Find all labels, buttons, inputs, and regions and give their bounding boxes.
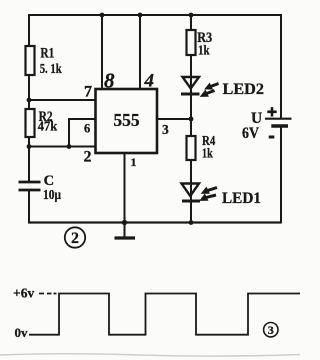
svg-text:6V: 6V bbox=[242, 125, 260, 142]
svg-text:2: 2 bbox=[71, 230, 79, 247]
svg-text:LED1: LED1 bbox=[222, 190, 261, 207]
svg-text:2: 2 bbox=[84, 148, 92, 165]
svg-text:1k: 1k bbox=[202, 145, 213, 160]
svg-text:7: 7 bbox=[84, 83, 92, 100]
svg-text:47k: 47k bbox=[38, 120, 58, 135]
svg-text:LED2: LED2 bbox=[223, 81, 265, 98]
svg-text:+6v: +6v bbox=[13, 286, 34, 301]
svg-text:1k: 1k bbox=[198, 43, 210, 58]
svg-text:3: 3 bbox=[162, 122, 169, 137]
svg-text:1: 1 bbox=[131, 155, 137, 169]
svg-text:3: 3 bbox=[268, 323, 274, 337]
svg-text:C: C bbox=[44, 173, 54, 189]
svg-text:555: 555 bbox=[113, 110, 140, 130]
svg-text:5. 1k: 5. 1k bbox=[40, 62, 62, 77]
svg-text:8: 8 bbox=[104, 69, 115, 93]
svg-text:R1: R1 bbox=[40, 45, 54, 61]
svg-text:10μ: 10μ bbox=[43, 188, 61, 203]
svg-text:6: 6 bbox=[84, 122, 90, 136]
svg-text:4: 4 bbox=[144, 71, 155, 92]
svg-text:0v: 0v bbox=[15, 325, 29, 340]
